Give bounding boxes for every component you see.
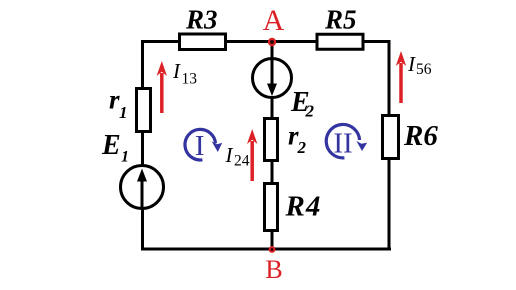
resistor r1 [137,89,151,132]
wire left [141,40,144,249]
current arrow I24 [247,129,257,181]
svg-text:E: E [101,130,121,161]
svg-text:1: 1 [121,149,129,166]
label R3 [185,5,218,35]
svg-text:R4: R4 [285,191,322,223]
svg-text:2: 2 [297,138,307,157]
wire top [143,40,391,43]
loop current II [326,124,367,159]
label r1 [109,85,128,123]
svg-text:R3: R3 [185,5,218,35]
label I56 [407,52,432,78]
current arrow I13 [157,61,167,113]
current arrow I56 [396,51,406,103]
svg-text:24: 24 [234,153,250,170]
label R6 [403,120,438,152]
svg-text:2: 2 [305,102,315,121]
svg-text:I: I [407,52,416,76]
svg-text:I: I [225,143,234,167]
source E2 [253,59,292,98]
wire middle branch [271,42,274,249]
label r2 [288,121,307,158]
resistor R3 [180,34,226,50]
label E1 [101,130,129,166]
loop current I [185,129,222,162]
svg-text:13: 13 [182,71,198,88]
svg-text:R6: R6 [403,120,438,152]
label B [265,255,282,284]
node B [269,246,276,253]
label E2 [290,87,315,121]
wire bottom [141,248,391,251]
source E1 [121,166,164,209]
svg-text:56: 56 [416,61,432,78]
label I24 [225,143,250,170]
label I13 [172,59,197,88]
svg-text:1: 1 [119,103,128,122]
node A [268,38,276,46]
svg-text:II: II [333,128,352,160]
svg-text:I: I [195,130,205,162]
label A [263,4,285,37]
resistor r2 [265,119,278,161]
label R5 [324,5,357,35]
svg-text:R5: R5 [324,5,357,35]
label R4 [285,191,322,223]
resistor R4 [265,184,278,231]
resistor R5 [317,34,363,49]
resistor R6 [383,116,399,159]
svg-text:I: I [172,59,181,83]
svg-text:B: B [265,255,282,284]
svg-text:A: A [263,4,285,37]
wire right [388,40,391,251]
